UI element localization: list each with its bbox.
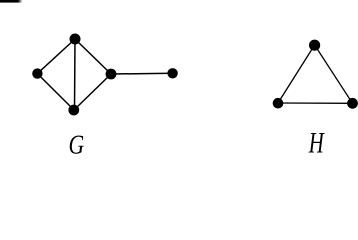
wire edge left-top (G) [37, 39, 75, 74]
graph G [37, 39, 172, 110]
graph H [278, 45, 353, 103]
wire edge right-pendant (G) [111, 72, 173, 75]
wire edge bottom-left (G) [37, 74, 74, 110]
wire edge top-right (G) [75, 39, 111, 74]
node G left [32, 68, 42, 78]
node H bottom-left [273, 98, 284, 109]
wire edge top-bottomright (H) [315, 45, 353, 103]
svg-text:G: G [68, 130, 84, 156]
wire edge top-bottom chord (G) [74, 39, 77, 110]
node G bottom [68, 105, 79, 116]
svg-text:H: H [308, 127, 325, 156]
node G top [70, 34, 81, 45]
node H bottom-right [347, 98, 358, 109]
node G right [106, 69, 117, 80]
wire edge top-bottomleft (H) [278, 45, 315, 103]
node H top [309, 40, 320, 51]
wire edge right-bottom (G) [74, 74, 111, 110]
wire edge bottomleft-bottomright (H) [278, 102, 353, 104]
node G pendant [167, 68, 177, 78]
